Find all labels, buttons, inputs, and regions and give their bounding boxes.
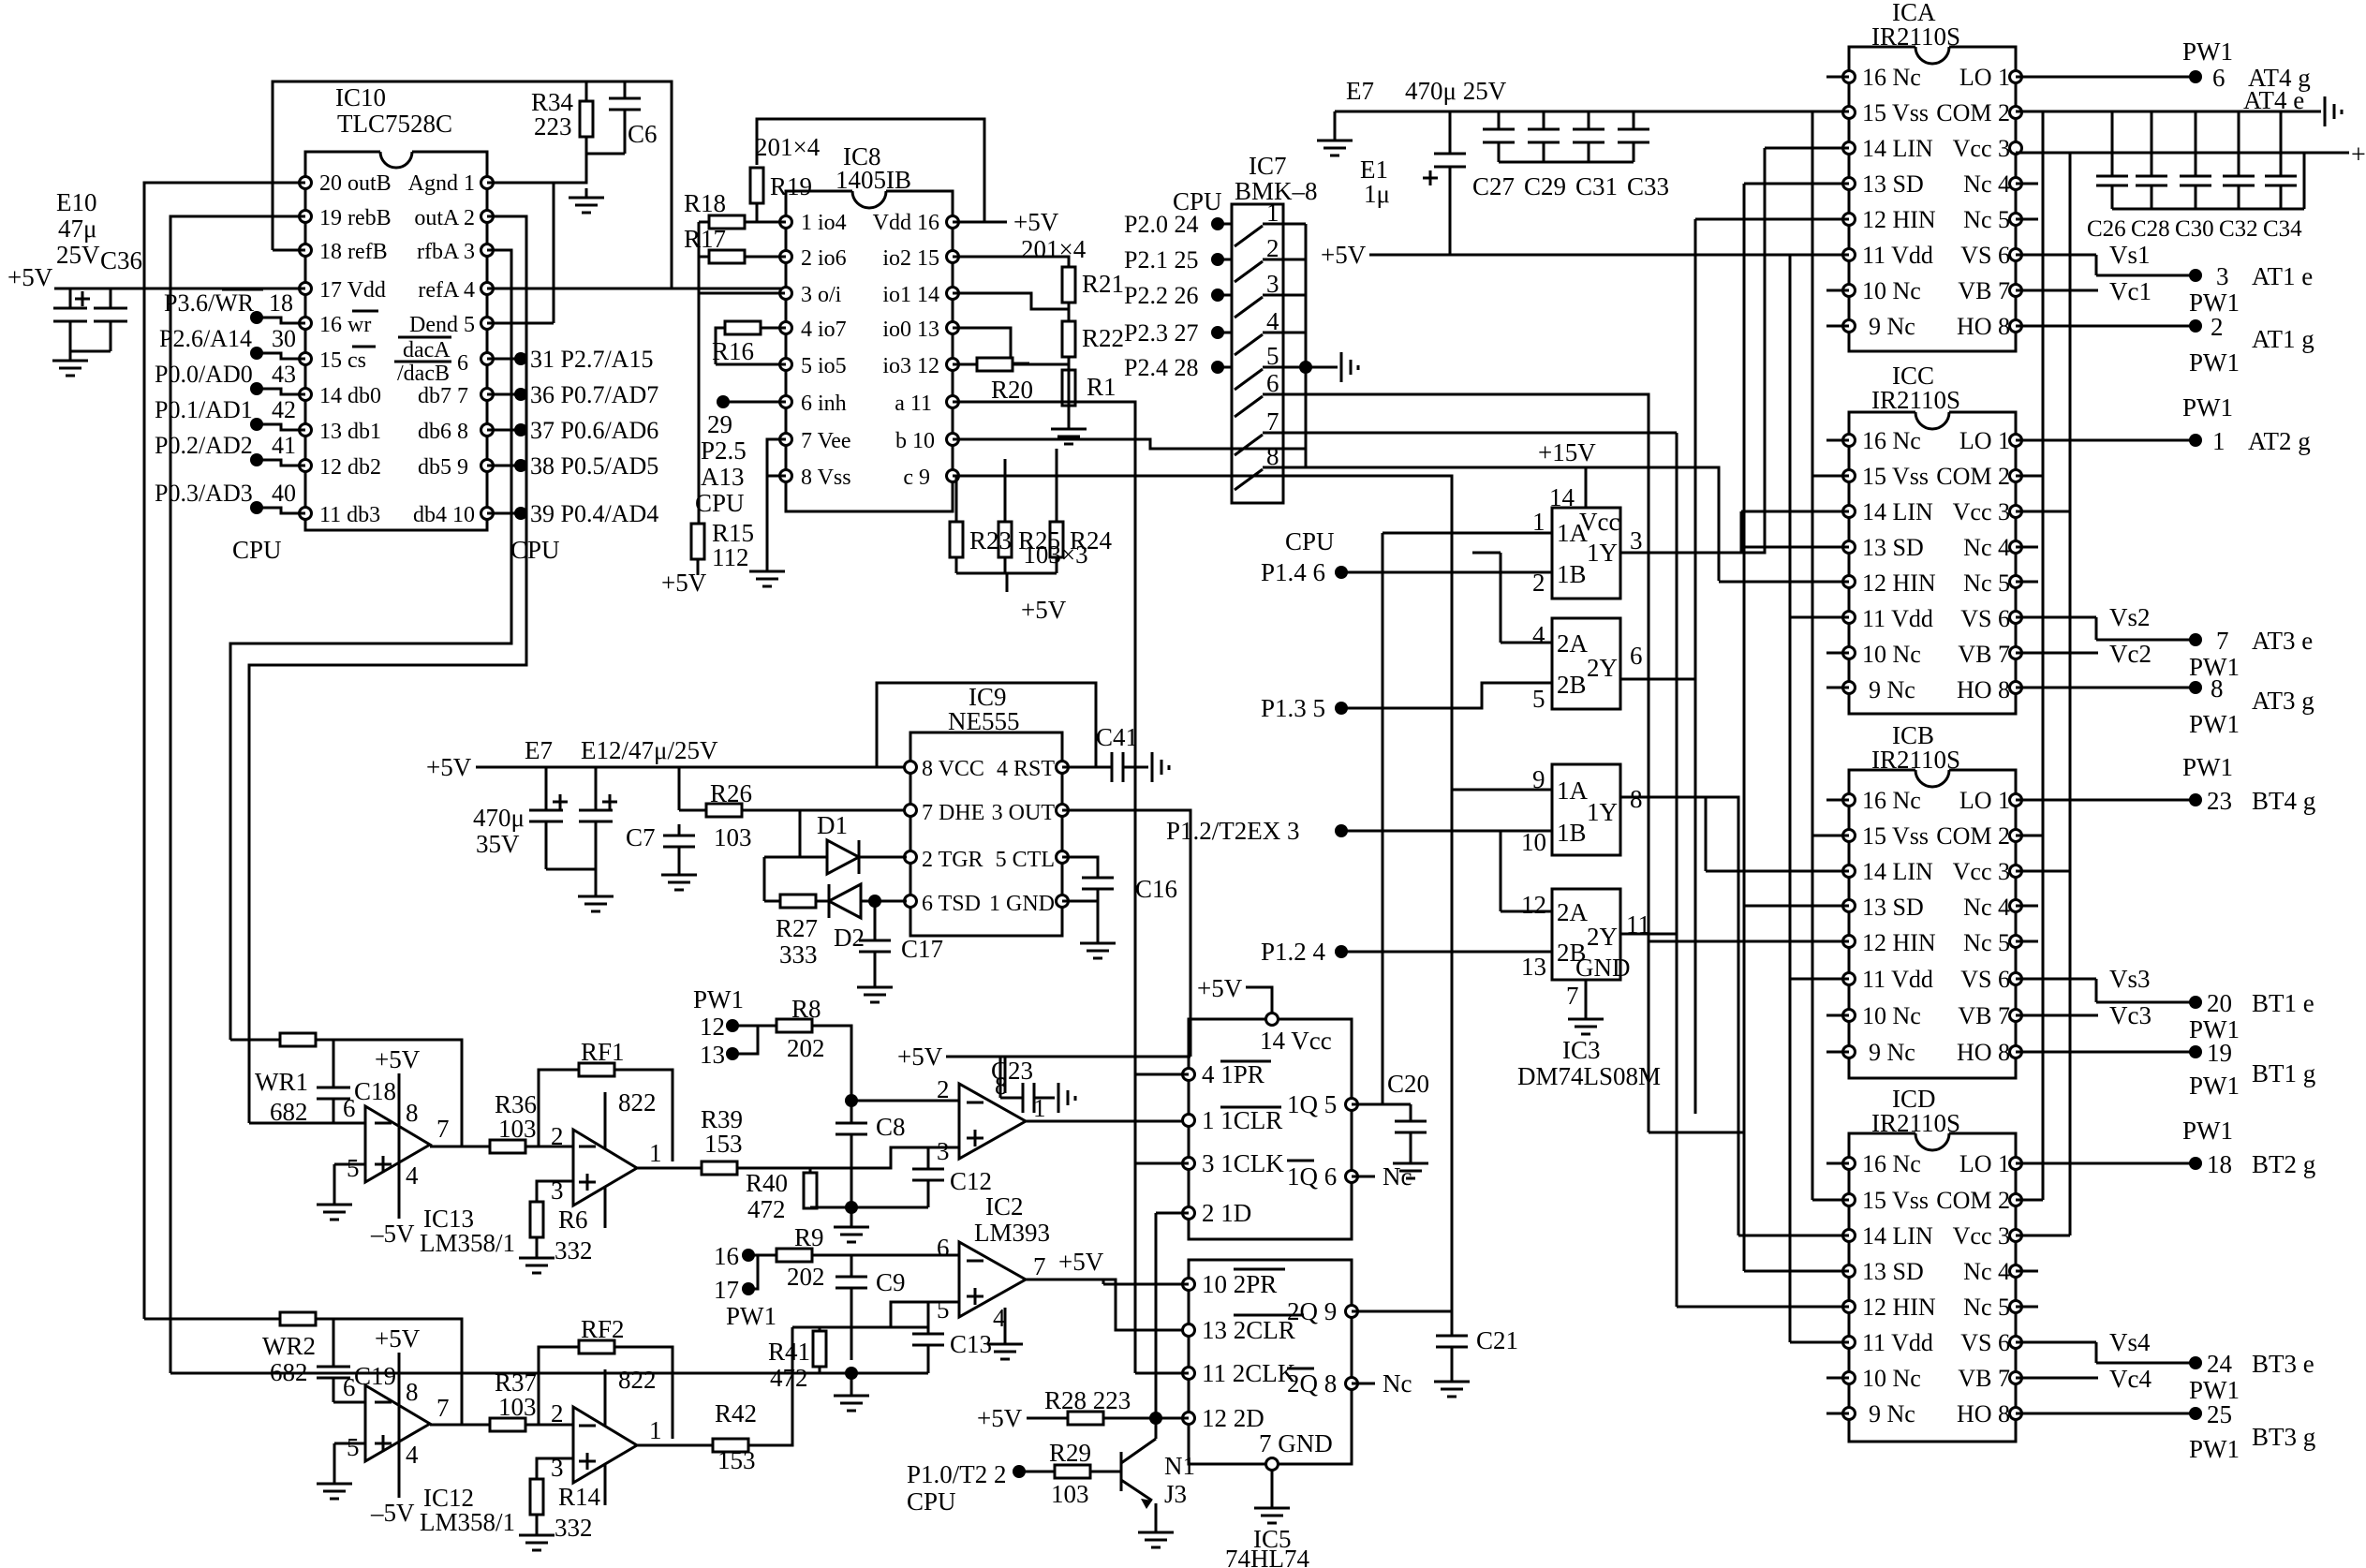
svg-text:470μ 25V: 470μ 25V [1405, 77, 1507, 105]
svg-text:9 Nc: 9 Nc [1869, 1039, 1915, 1066]
svg-text:15 cs: 15 cs [319, 348, 366, 373]
GND pin 7 [1585, 980, 1588, 1010]
svg-text:112: 112 [712, 543, 749, 571]
svg-text:C18: C18 [354, 1077, 396, 1105]
svg-text:25: 25 [2207, 1400, 2232, 1428]
svg-text:11 2CLK: 11 2CLK [1202, 1359, 1296, 1387]
svg-text:6: 6 [937, 1234, 950, 1262]
ICB COM2/Vcc3 wires [2016, 836, 2070, 871]
svg-text:15 Vss: 15 Vss [1862, 1187, 1929, 1214]
svg-text:R21: R21 [1082, 270, 1124, 298]
svg-text:C41: C41 [1096, 723, 1138, 751]
svg-text:–5V: –5V [370, 1220, 415, 1248]
IC10 pin labels right column [408, 171, 475, 527]
svg-text:11 db3: 11 db3 [319, 503, 380, 527]
resistors R23 R25 R24 [956, 449, 1057, 592]
svg-text:P2.1 25: P2.1 25 [1124, 246, 1198, 274]
svg-text:37 P0.6/AD6: 37 P0.6/AD6 [530, 417, 658, 444]
svg-text:42: 42 [272, 396, 296, 423]
ICA left pins 16..9 [1843, 71, 1856, 83]
svg-text:PW1: PW1 [2182, 753, 2233, 781]
ICC VB7 wire Vc2 [2016, 652, 2098, 655]
svg-text:LO 1: LO 1 [1959, 1150, 2010, 1177]
svg-text:5 CTL: 5 CTL [996, 848, 1055, 872]
svg-text:Vdd 16: Vdd 16 [873, 211, 939, 235]
svg-text:18: 18 [2207, 1150, 2232, 1178]
svg-text:1 1CLR: 1 1CLR [1202, 1106, 1282, 1134]
D2 diode [829, 884, 861, 918]
svg-text:16 Nc: 16 Nc [1862, 427, 1921, 454]
svg-text:Vcc: Vcc [1579, 508, 1619, 536]
svg-text:19 rebB: 19 rebB [319, 206, 392, 230]
ICC HO8 wire AT3 g [2016, 687, 2196, 689]
svg-text:Nc 5: Nc 5 [1963, 929, 2010, 956]
svg-text:AT1 g: AT1 g [2252, 325, 2314, 353]
resistor R21 [1062, 267, 1075, 303]
svg-text:8: 8 [1266, 442, 1279, 470]
svg-text:PW1: PW1 [2189, 710, 2240, 738]
svg-text:+5V: +5V [661, 569, 707, 597]
svg-text:CPU: CPU [1285, 527, 1335, 555]
C20 on 1Q5 [1352, 1104, 1427, 1154]
VS6 Vs1 AT1e [2016, 255, 2196, 275]
svg-text:+: + [2351, 141, 2366, 170]
svg-text:15 Vss: 15 Vss [1862, 822, 1929, 850]
svg-text:12 db2: 12 db2 [319, 455, 381, 480]
svg-text:C26: C26 [2087, 216, 2126, 242]
capacitor C6 [609, 81, 658, 154]
svg-text:R22: R22 [1082, 324, 1124, 352]
gate3 1A from 2Q trunk [1452, 789, 1552, 791]
wire rebB pin19 left + long vertical [170, 216, 305, 1373]
svg-text:3 1CLK: 3 1CLK [1202, 1149, 1284, 1177]
resistor R22 [1062, 321, 1075, 357]
svg-text:4 RST: 4 RST [997, 757, 1055, 781]
svg-text:24: 24 [2207, 1350, 2233, 1378]
svg-text:R27: R27 [776, 914, 818, 942]
svg-text:4: 4 [406, 1161, 419, 1190]
svg-text:Vcc 3: Vcc 3 [1953, 498, 2010, 525]
svg-text:3: 3 [1630, 526, 1643, 555]
svg-text:223: 223 [534, 112, 572, 141]
svg-text:13: 13 [1521, 953, 1546, 981]
ICD right pins 1..8 [2010, 1158, 2022, 1170]
svg-text:2: 2 [937, 1075, 950, 1103]
resistor R26 [679, 809, 907, 812]
svg-text:7: 7 [2216, 627, 2229, 655]
svg-text:103: 103 [498, 1393, 537, 1421]
svg-text:31 P2.7/A15: 31 P2.7/A15 [530, 346, 653, 373]
svg-text:a 11: a 11 [895, 392, 932, 416]
wire rfbA3 S-bend down to WR1 [230, 250, 511, 1040]
svg-text:PW1: PW1 [726, 1302, 776, 1330]
pins 7/8 Vee Vss to ground [767, 439, 786, 562]
wire refA4 to right (to IC8 o/i) [487, 288, 785, 290]
ICC COM2/Vcc3 wires [2016, 476, 2070, 511]
svg-text:PW1: PW1 [2182, 1117, 2233, 1145]
ICC Nc stubs [1826, 440, 2038, 688]
svg-text:7: 7 [1566, 982, 1579, 1010]
svg-text:TLC7528C: TLC7528C [337, 110, 452, 138]
plus input row from R42 riser [792, 1302, 959, 1327]
ICB left pins 16..9 [1843, 794, 1856, 806]
svg-text:BT1 g: BT1 g [2252, 1059, 2315, 1087]
svg-text:9 Nc: 9 Nc [1869, 313, 1915, 340]
svg-text:Dend 5: Dend 5 [409, 313, 475, 337]
svg-text:Vc2: Vc2 [2109, 640, 2152, 668]
svg-text:db6 8: db6 8 [418, 420, 468, 444]
svg-text:3: 3 [1266, 270, 1279, 298]
svg-text:Vs3: Vs3 [2109, 965, 2151, 993]
svg-text:P2.0 24: P2.0 24 [1124, 211, 1198, 238]
svg-text:18 refB: 18 refB [319, 240, 388, 264]
svg-text:b 10: b 10 [895, 429, 935, 453]
svg-text:CPU: CPU [232, 536, 282, 564]
gate4 2A from T2EX row [1501, 831, 1552, 911]
bottom bus + ground [70, 350, 111, 353]
capacitor C8 [835, 1123, 867, 1134]
io0 13 wire [953, 328, 1029, 363]
svg-text:2Y: 2Y [1587, 654, 1618, 682]
svg-text:+5V: +5V [1321, 241, 1367, 269]
ICD left pins 16..9 [1843, 1158, 1856, 1170]
svg-text:VB 7: VB 7 [1958, 277, 2010, 304]
svg-text:9 Nc: 9 Nc [1869, 676, 1915, 703]
svg-text:14 LIN: 14 LIN [1862, 858, 1933, 885]
svg-text:13 SD: 13 SD [1862, 894, 1924, 921]
svg-text:LO 1: LO 1 [1959, 427, 2010, 454]
pin c wire [953, 476, 1452, 1311]
svg-text:+5V: +5V [426, 753, 472, 781]
ICC LO1 wire to PW1 terminal 1 [2016, 439, 2196, 442]
svg-text:25V: 25V [56, 241, 100, 269]
svg-text:R26: R26 [710, 779, 752, 807]
supply line 822 [604, 1092, 607, 1228]
svg-text:332: 332 [555, 1236, 593, 1265]
svg-text:6: 6 [343, 1094, 356, 1122]
svg-text:C31: C31 [1575, 172, 1618, 200]
svg-text:10 Nc: 10 Nc [1862, 641, 1921, 668]
capacitor C13 [912, 1302, 944, 1373]
IC8 top rectangle wire [757, 119, 984, 222]
svg-text:D1: D1 [817, 811, 848, 839]
capacitor E1 [1423, 111, 1466, 255]
svg-text:3: 3 [2216, 262, 2229, 290]
svg-text:38 P0.5/AD5: 38 P0.5/AD5 [530, 452, 658, 480]
ground at rail left end [1317, 131, 1353, 155]
svg-text:13 2CLR: 13 2CLR [1202, 1316, 1295, 1344]
SD trunk [1649, 184, 1744, 1271]
svg-text:7: 7 [436, 1115, 450, 1143]
1Q6 Nc stub [1352, 1176, 1375, 1178]
svg-text:AT3 g: AT3 g [2252, 687, 2314, 715]
svg-text:P1.2/T2EX 3: P1.2/T2EX 3 [1166, 817, 1300, 845]
svg-text:3 OUT: 3 OUT [992, 801, 1056, 825]
svg-text:4: 4 [406, 1441, 419, 1469]
svg-text:13 SD: 13 SD [1862, 170, 1924, 198]
clock branches from trunk [1135, 1057, 1190, 1373]
svg-text:AT3 e: AT3 e [2252, 627, 2313, 655]
svg-text:C34: C34 [2263, 216, 2302, 242]
svg-text:COM 2: COM 2 [1936, 1187, 2010, 1214]
ICD right pin labels [1936, 1150, 2010, 1427]
svg-text:D2: D2 [834, 924, 865, 952]
R27 resistor [780, 895, 816, 908]
svg-text:Nc 5: Nc 5 [1963, 1294, 2010, 1321]
ICA left pin labels [1862, 64, 1936, 340]
pin6 inh dot + labels 29 P2.5 A13 CPU [717, 395, 730, 408]
svg-text:7: 7 [436, 1394, 450, 1422]
AND gate U2a [1552, 764, 1620, 855]
svg-text:PW1: PW1 [2189, 348, 2240, 377]
capacitor C9 [835, 1277, 867, 1288]
gate3 output to ICD LIN [1620, 797, 1738, 1235]
svg-text:VB 7: VB 7 [1958, 1002, 2010, 1029]
svg-text:C27: C27 [1472, 172, 1515, 200]
svg-text:E12/47μ/25V: E12/47μ/25V [581, 736, 718, 764]
svg-text:12 HIN: 12 HIN [1862, 206, 1936, 233]
svg-text:RF2: RF2 [581, 1315, 625, 1343]
svg-text:IC2: IC2 [985, 1192, 1024, 1220]
svg-text:1405IB: 1405IB [835, 166, 911, 194]
dotted stubs to pins 16,15,14,13,12,11 [250, 311, 263, 324]
svg-text:Vs2: Vs2 [2109, 603, 2151, 631]
svg-text:E7: E7 [1346, 77, 1374, 105]
2Q8 Nc stub [1352, 1383, 1375, 1385]
svg-text:472: 472 [770, 1364, 808, 1392]
svg-text:C7: C7 [626, 823, 656, 851]
svg-text:Vcc 3: Vcc 3 [1953, 1222, 2010, 1250]
svg-text:74HL74: 74HL74 [1225, 1545, 1309, 1568]
pin b wire [953, 439, 1306, 449]
svg-text:332: 332 [555, 1514, 593, 1542]
IC7 ground at row5 [1299, 361, 1312, 374]
svg-text:db7 7: db7 7 [418, 384, 468, 408]
capacitor C19 [317, 1319, 350, 1402]
svg-text:7: 7 [1266, 407, 1279, 436]
P1.2/T2EX wire to 1B [1341, 830, 1552, 833]
svg-text:35V: 35V [476, 830, 520, 858]
resistor R19 [750, 168, 763, 203]
svg-text:refA 4: refA 4 [418, 278, 475, 303]
2PR +5V [1103, 1280, 1189, 1284]
junction + C17 [868, 895, 881, 908]
svg-text:3: 3 [937, 1137, 950, 1165]
svg-text:dacA: dacA [403, 338, 451, 362]
svg-text:+5V: +5V [7, 263, 53, 291]
svg-text:10 2PR: 10 2PR [1202, 1270, 1277, 1298]
svg-text:+5V: +5V [977, 1404, 1023, 1432]
svg-text:2 1D: 2 1D [1202, 1199, 1251, 1227]
ICD LO1 wire BT2 g [2016, 1162, 2196, 1165]
svg-text:13 SD: 13 SD [1862, 1258, 1924, 1285]
svg-text:10 Nc: 10 Nc [1862, 1002, 1921, 1029]
COM2 ground bus [2016, 111, 2321, 113]
svg-text:P2.3 27: P2.3 27 [1124, 319, 1198, 347]
plus input to R14 [537, 1458, 573, 1479]
svg-text:NE555: NE555 [948, 707, 1020, 735]
capacitor C36 [94, 288, 127, 351]
svg-text:16 Nc: 16 Nc [1862, 64, 1921, 91]
svg-text:VB 7: VB 7 [1958, 641, 2010, 668]
left rail of D1/R27 loop [763, 857, 766, 901]
left bus joining R18/R17 down to R15 [698, 222, 701, 524]
IC10 pin labels left column [319, 171, 392, 527]
ICB VB7 wire Vc3 [2016, 1014, 2098, 1017]
IC9 pins [905, 762, 917, 774]
svg-text:1: 1 [649, 1139, 662, 1167]
svg-text:COM 2: COM 2 [1936, 99, 2010, 126]
gate1 1A from 1Q trunk [1383, 533, 1552, 1104]
IC10 right pins [481, 177, 494, 189]
svg-text:41: 41 [272, 432, 296, 459]
IC9 outer VCC-RST loop [877, 683, 1096, 767]
svg-text:7: 7 [1033, 1252, 1046, 1280]
svg-text:2A: 2A [1557, 898, 1589, 926]
svg-text:14 LIN: 14 LIN [1862, 135, 1933, 162]
plus input to R6 [537, 1181, 573, 1202]
wire outA2 S-bend down to IC12 area [249, 216, 526, 1123]
svg-text:1: 1 [2212, 427, 2226, 455]
svg-text:N1: N1 [1164, 1452, 1195, 1480]
svg-text:16 Nc: 16 Nc [1862, 787, 1921, 814]
output row + R39 [637, 1167, 810, 1170]
svg-text:IC10: IC10 [335, 83, 386, 111]
IC9 box [910, 732, 1062, 936]
svg-text:+5V: +5V [375, 1045, 421, 1073]
svg-text:PW1: PW1 [2182, 393, 2233, 422]
svg-text:C32: C32 [2219, 216, 2258, 242]
svg-text:PW1: PW1 [2182, 37, 2233, 66]
svg-text:db5 9: db5 9 [418, 455, 468, 480]
svg-text:BT1 e: BT1 e [2252, 989, 2314, 1017]
svg-text:16: 16 [714, 1242, 739, 1270]
svg-text:1Y: 1Y [1587, 539, 1618, 567]
svg-text:2Q 9: 2Q 9 [1287, 1297, 1337, 1325]
svg-text:db4 10: db4 10 [413, 503, 475, 527]
svg-text:Nc 4: Nc 4 [1963, 534, 2010, 561]
capacitor E7 electrolytic [529, 767, 568, 869]
svg-text:C23: C23 [991, 1057, 1033, 1085]
AND gate U2b [1552, 889, 1620, 980]
svg-text:P3.6/WR: P3.6/WR [164, 289, 255, 317]
svg-text:8: 8 [2211, 674, 2224, 703]
transistor N1 [1121, 1213, 1189, 1523]
svg-text:+5V: +5V [1013, 208, 1059, 236]
svg-text:12 2D: 12 2D [1202, 1404, 1264, 1432]
VB7 Vc1 [2016, 289, 2098, 292]
svg-text:AT1 e: AT1 e [2252, 262, 2313, 290]
R41 [819, 1327, 821, 1374]
feedback RF1 [539, 1070, 673, 1161]
ICD Nc stubs [1826, 1163, 2038, 1413]
svg-text:202: 202 [787, 1263, 825, 1291]
pin a wire to clock trunk [953, 402, 1135, 1373]
svg-text:io1 14: io1 14 [882, 283, 939, 307]
svg-text:C9: C9 [876, 1268, 906, 1296]
svg-text:7 GND: 7 GND [1259, 1429, 1333, 1457]
svg-text:19: 19 [2207, 1039, 2232, 1067]
svg-text:WR2: WR2 [262, 1332, 316, 1360]
svg-text:/dacB: /dacB [397, 362, 450, 386]
svg-text:5: 5 [937, 1295, 950, 1324]
svg-text:333: 333 [779, 940, 818, 969]
2Q9 to trunk + C21 [1352, 1310, 1452, 1313]
ICD VB7 wire Vc4 [2016, 1377, 2098, 1380]
svg-text:R29: R29 [1049, 1439, 1091, 1467]
svg-text:IC3: IC3 [1562, 1036, 1601, 1064]
svg-text:13 db1: 13 db1 [319, 420, 381, 444]
svg-text:1 GND: 1 GND [989, 892, 1055, 916]
ICB HO8 wire BT1 g [2016, 1051, 2196, 1054]
svg-text:VS 6: VS 6 [1960, 242, 2010, 269]
P1.2 wire to 2B [1341, 951, 1552, 954]
svg-text:GND: GND [1575, 954, 1631, 982]
svg-text:1B: 1B [1557, 819, 1587, 847]
svg-text:Nc: Nc [1383, 1369, 1412, 1398]
svg-text:HO 8: HO 8 [1957, 313, 2010, 340]
Vcc3 bus with + [2016, 152, 2349, 155]
svg-text:io3 12: io3 12 [882, 354, 939, 378]
svg-text:1Y: 1Y [1587, 798, 1618, 826]
svg-text:472: 472 [747, 1195, 786, 1223]
svg-text:36 P0.7/AD7: 36 P0.7/AD7 [530, 381, 658, 408]
svg-text:47μ: 47μ [58, 214, 96, 243]
svg-text:VS 6: VS 6 [1960, 966, 2010, 993]
comparator minus row [851, 1100, 959, 1102]
svg-text:LM358/1: LM358/1 [420, 1508, 515, 1536]
HO8 AT1g [2016, 325, 2196, 328]
svg-text:P1.2 4: P1.2 4 [1261, 938, 1326, 966]
svg-text:1: 1 [649, 1416, 662, 1444]
svg-text:R1: R1 [1087, 373, 1116, 401]
svg-text:3 o/i: 3 o/i [801, 283, 842, 307]
svg-text:c 9: c 9 [903, 466, 930, 490]
svg-text:4: 4 [1532, 621, 1545, 649]
svg-text:HO 8: HO 8 [1957, 1039, 2010, 1066]
P1.3 wire to 2B [1341, 683, 1552, 708]
svg-text:A13: A13 [701, 463, 745, 491]
COM trunk [2042, 111, 2045, 1200]
svg-text:Nc 5: Nc 5 [1963, 206, 2010, 233]
svg-text:2: 2 [2211, 313, 2224, 341]
R40 pulldown [809, 1168, 812, 1208]
svg-text:9 Nc: 9 Nc [1869, 1400, 1915, 1427]
ICD COM2/Vcc3 wires [2016, 1200, 2070, 1235]
svg-text:153: 153 [717, 1446, 756, 1474]
RF2 feedback [539, 1347, 673, 1439]
capacitor C7 [663, 767, 695, 865]
svg-text:Vc4: Vc4 [2109, 1365, 2152, 1393]
ICB left trunk branch wires [1649, 797, 1849, 979]
gate2 output to ICA HIN [1620, 219, 1695, 1114]
svg-text:6: 6 [1266, 369, 1279, 397]
svg-text:C30: C30 [2175, 216, 2214, 242]
svg-text:14 db0: 14 db0 [319, 384, 381, 408]
svg-text:201×4: 201×4 [755, 133, 821, 161]
svg-text:R8: R8 [791, 995, 821, 1023]
svg-text:HO 8: HO 8 [1957, 1400, 2010, 1427]
svg-text:CPU: CPU [510, 536, 560, 564]
svg-text:io0 13: io0 13 [882, 318, 939, 342]
svg-text:18: 18 [269, 289, 293, 317]
junction row 1467 + C13 + grounds [170, 1373, 928, 1374]
svg-text:P1.3 5: P1.3 5 [1261, 694, 1325, 722]
svg-text:P2.5: P2.5 [701, 436, 747, 465]
IC10 right external labels with dots [514, 352, 527, 365]
svg-text:6: 6 [343, 1373, 356, 1401]
svg-text:17 Vdd: 17 Vdd [319, 278, 386, 303]
